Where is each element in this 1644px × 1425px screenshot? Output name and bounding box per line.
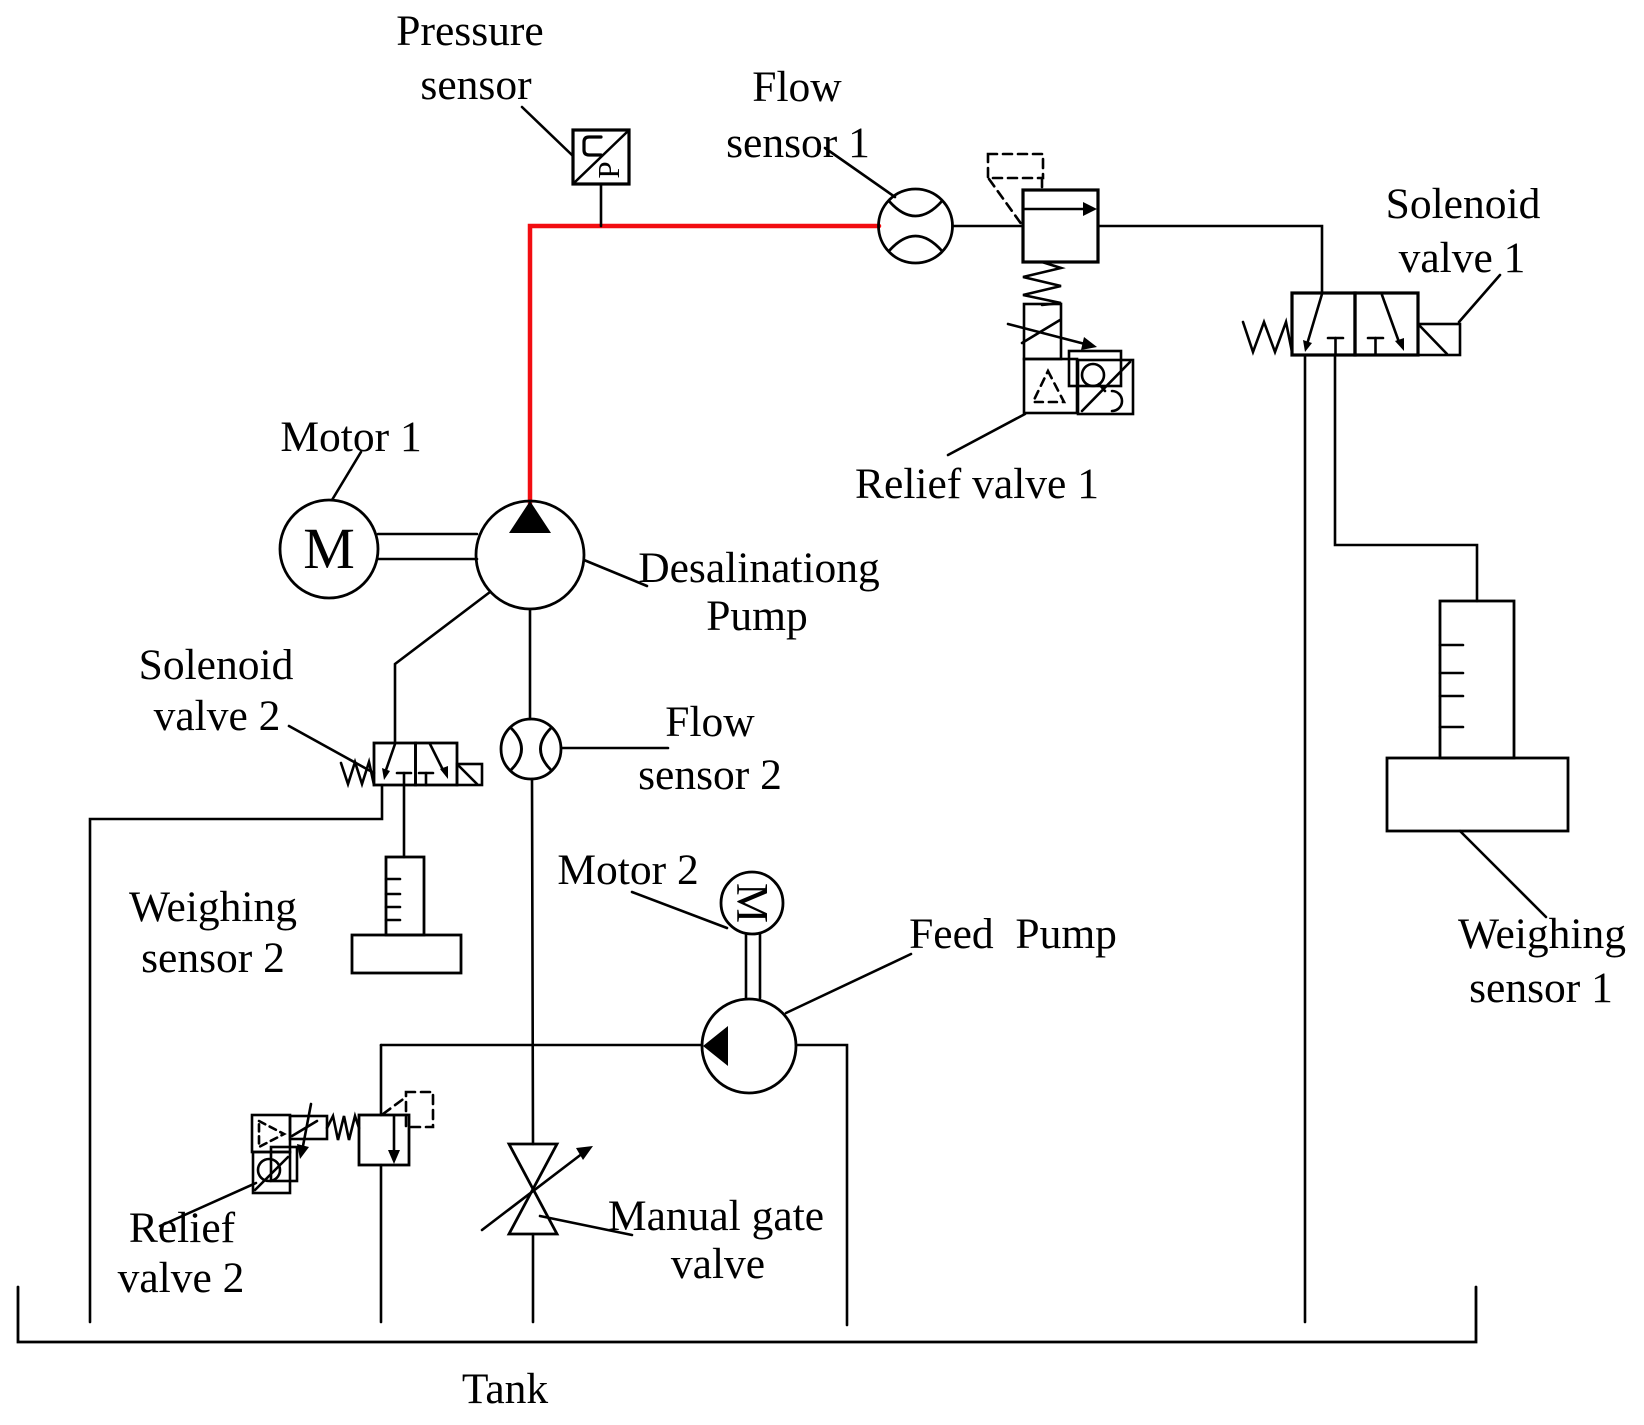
wire: pressure sensor stem	[600, 184, 603, 226]
wire: flow sensor 2 down through junction to gate valve	[532, 779, 533, 1144]
svg-text:Pressure: Pressure	[396, 7, 543, 55]
feed pump leader	[786, 954, 911, 1013]
svg-text:Flow: Flow	[752, 63, 842, 111]
label Relief valve 2	[118, 1204, 245, 1302]
svg-text:sensor 1: sensor 1	[726, 119, 870, 167]
wire: header down to relief valve 2	[380, 1045, 383, 1115]
svg-text:sensor: sensor	[420, 61, 532, 109]
wire: solenoid valve 2 to weighing sensor 2	[403, 785, 406, 857]
wire: solenoid valve 1 left port to tank	[1304, 355, 1307, 1322]
svg-text:Relief valve 1: Relief valve 1	[855, 460, 1099, 508]
label Manual gate valve	[608, 1192, 824, 1288]
solenoid valve 1 leader	[1459, 275, 1500, 322]
solenoid valve 2 leader	[289, 726, 374, 773]
feed pump	[702, 999, 796, 1093]
svg-text:Tank: Tank	[462, 1365, 549, 1413]
solenoid valve 2	[374, 743, 457, 785]
wire: relief valve 2 to tank	[380, 1165, 383, 1322]
wire: pump to flow sensor 2	[529, 609, 532, 719]
shaft motor 1 to pump	[378, 533, 477, 536]
relief valve 1 throttle box	[1008, 304, 1097, 359]
relief valve 1 pilot dashed box	[988, 154, 1043, 225]
wire: flow sensor 1 to relief valve 1	[953, 225, 1024, 228]
svg-text:valve: valve	[671, 1240, 765, 1288]
svg-text:Solenoid: Solenoid	[1386, 180, 1541, 228]
manual gate valve	[482, 1144, 593, 1234]
svg-text:Flow: Flow	[665, 698, 755, 746]
motor 2	[721, 872, 783, 934]
wire: solenoid valve 1 to weighing sensor 1	[1335, 355, 1477, 601]
relief valve 2 body	[359, 1115, 409, 1165]
solenoid valve 1	[1292, 293, 1418, 355]
svg-text:sensor 2: sensor 2	[141, 934, 285, 982]
svg-text:Desalinationg: Desalinationg	[638, 544, 880, 592]
svg-text:Motor 2: Motor 2	[557, 846, 698, 894]
label Solenoid valve 2	[139, 641, 294, 740]
svg-text:M: M	[727, 883, 777, 923]
svg-text:Weighing: Weighing	[1458, 910, 1626, 958]
wire: pump to solenoid valve 2	[395, 592, 490, 743]
flow sensor 1	[879, 189, 953, 263]
solenoid valve 1 spring	[1243, 322, 1292, 352]
solenoid valve 2 spring	[341, 762, 374, 785]
svg-text:valve 2: valve 2	[118, 1254, 245, 1302]
motor 1 leader	[332, 452, 361, 500]
relief valve 1 pilot symbol boxes	[1024, 351, 1133, 414]
wire: red pump discharge line	[530, 226, 879, 503]
solenoid valve 2 coil	[457, 764, 482, 785]
relief valve 2 throttle box	[290, 1104, 327, 1159]
svg-text:P: P	[591, 161, 626, 178]
flow sensor 1 leader	[825, 148, 895, 197]
label Weighing sensor 2	[129, 883, 297, 982]
svg-text:Pump: Pump	[706, 592, 808, 640]
label Flow sensor 1	[726, 63, 870, 167]
svg-text:sensor 1: sensor 1	[1469, 964, 1613, 1012]
solenoid valve 1 coil	[1418, 324, 1460, 355]
pressure sensor leader	[522, 107, 573, 156]
relief valve 2 leader	[160, 1183, 256, 1226]
motor 2 leader	[632, 892, 727, 928]
wire: gate valve to tank	[532, 1234, 535, 1322]
weighing sensor 1 leader	[1460, 831, 1546, 917]
desalination pump	[476, 501, 584, 609]
weighing sensor 1	[1387, 601, 1568, 831]
manual gate valve leader	[540, 1216, 632, 1235]
motor 1	[280, 500, 378, 598]
label Weighing sensor 1	[1458, 910, 1626, 1012]
desalination pump leader	[584, 560, 647, 586]
svg-text:Solenoid: Solenoid	[139, 641, 294, 689]
tank	[18, 1287, 1476, 1342]
relief valve 1 spring	[1023, 262, 1061, 305]
label Solenoid valve 1	[1386, 180, 1541, 282]
relief valve 1 leader	[948, 414, 1025, 455]
relief valve 2 pilot dashed box	[383, 1092, 433, 1127]
wire: solenoid valve 2 drain to tank	[90, 785, 382, 1322]
label Desalinationg Pump	[638, 544, 880, 640]
flow sensor 2	[501, 719, 561, 779]
relief valve 2 pilot symbol boxes	[252, 1115, 297, 1193]
wire: relief valve 1 to solenoid valve 1	[1098, 226, 1322, 293]
shaft motor 2 to feed pump	[745, 934, 748, 998]
relief valve 1 body	[1023, 190, 1098, 262]
wire: suction header to feed pump	[381, 1044, 702, 1047]
svg-text:sensor 2: sensor 2	[638, 751, 782, 799]
weighing sensor 2	[352, 857, 461, 973]
svg-text:M: M	[303, 516, 355, 581]
pressure sensor P/I symbol	[573, 130, 629, 184]
svg-text:Weighing: Weighing	[129, 883, 297, 931]
svg-text:Feed Pump: Feed Pump	[909, 910, 1117, 958]
label Flow sensor 2	[638, 698, 782, 799]
svg-text:valve 2: valve 2	[154, 692, 281, 740]
label Pressure sensor	[396, 7, 543, 109]
svg-text:valve 1: valve 1	[1399, 234, 1526, 282]
flow sensor 2 leader	[562, 747, 668, 750]
wire: feed pump outlet to tank	[796, 1045, 847, 1325]
svg-text:Relief: Relief	[129, 1204, 236, 1252]
svg-text:Motor 1: Motor 1	[280, 413, 421, 461]
relief valve 2 spring	[327, 1116, 359, 1140]
svg-text:Manual gate: Manual gate	[608, 1192, 824, 1240]
